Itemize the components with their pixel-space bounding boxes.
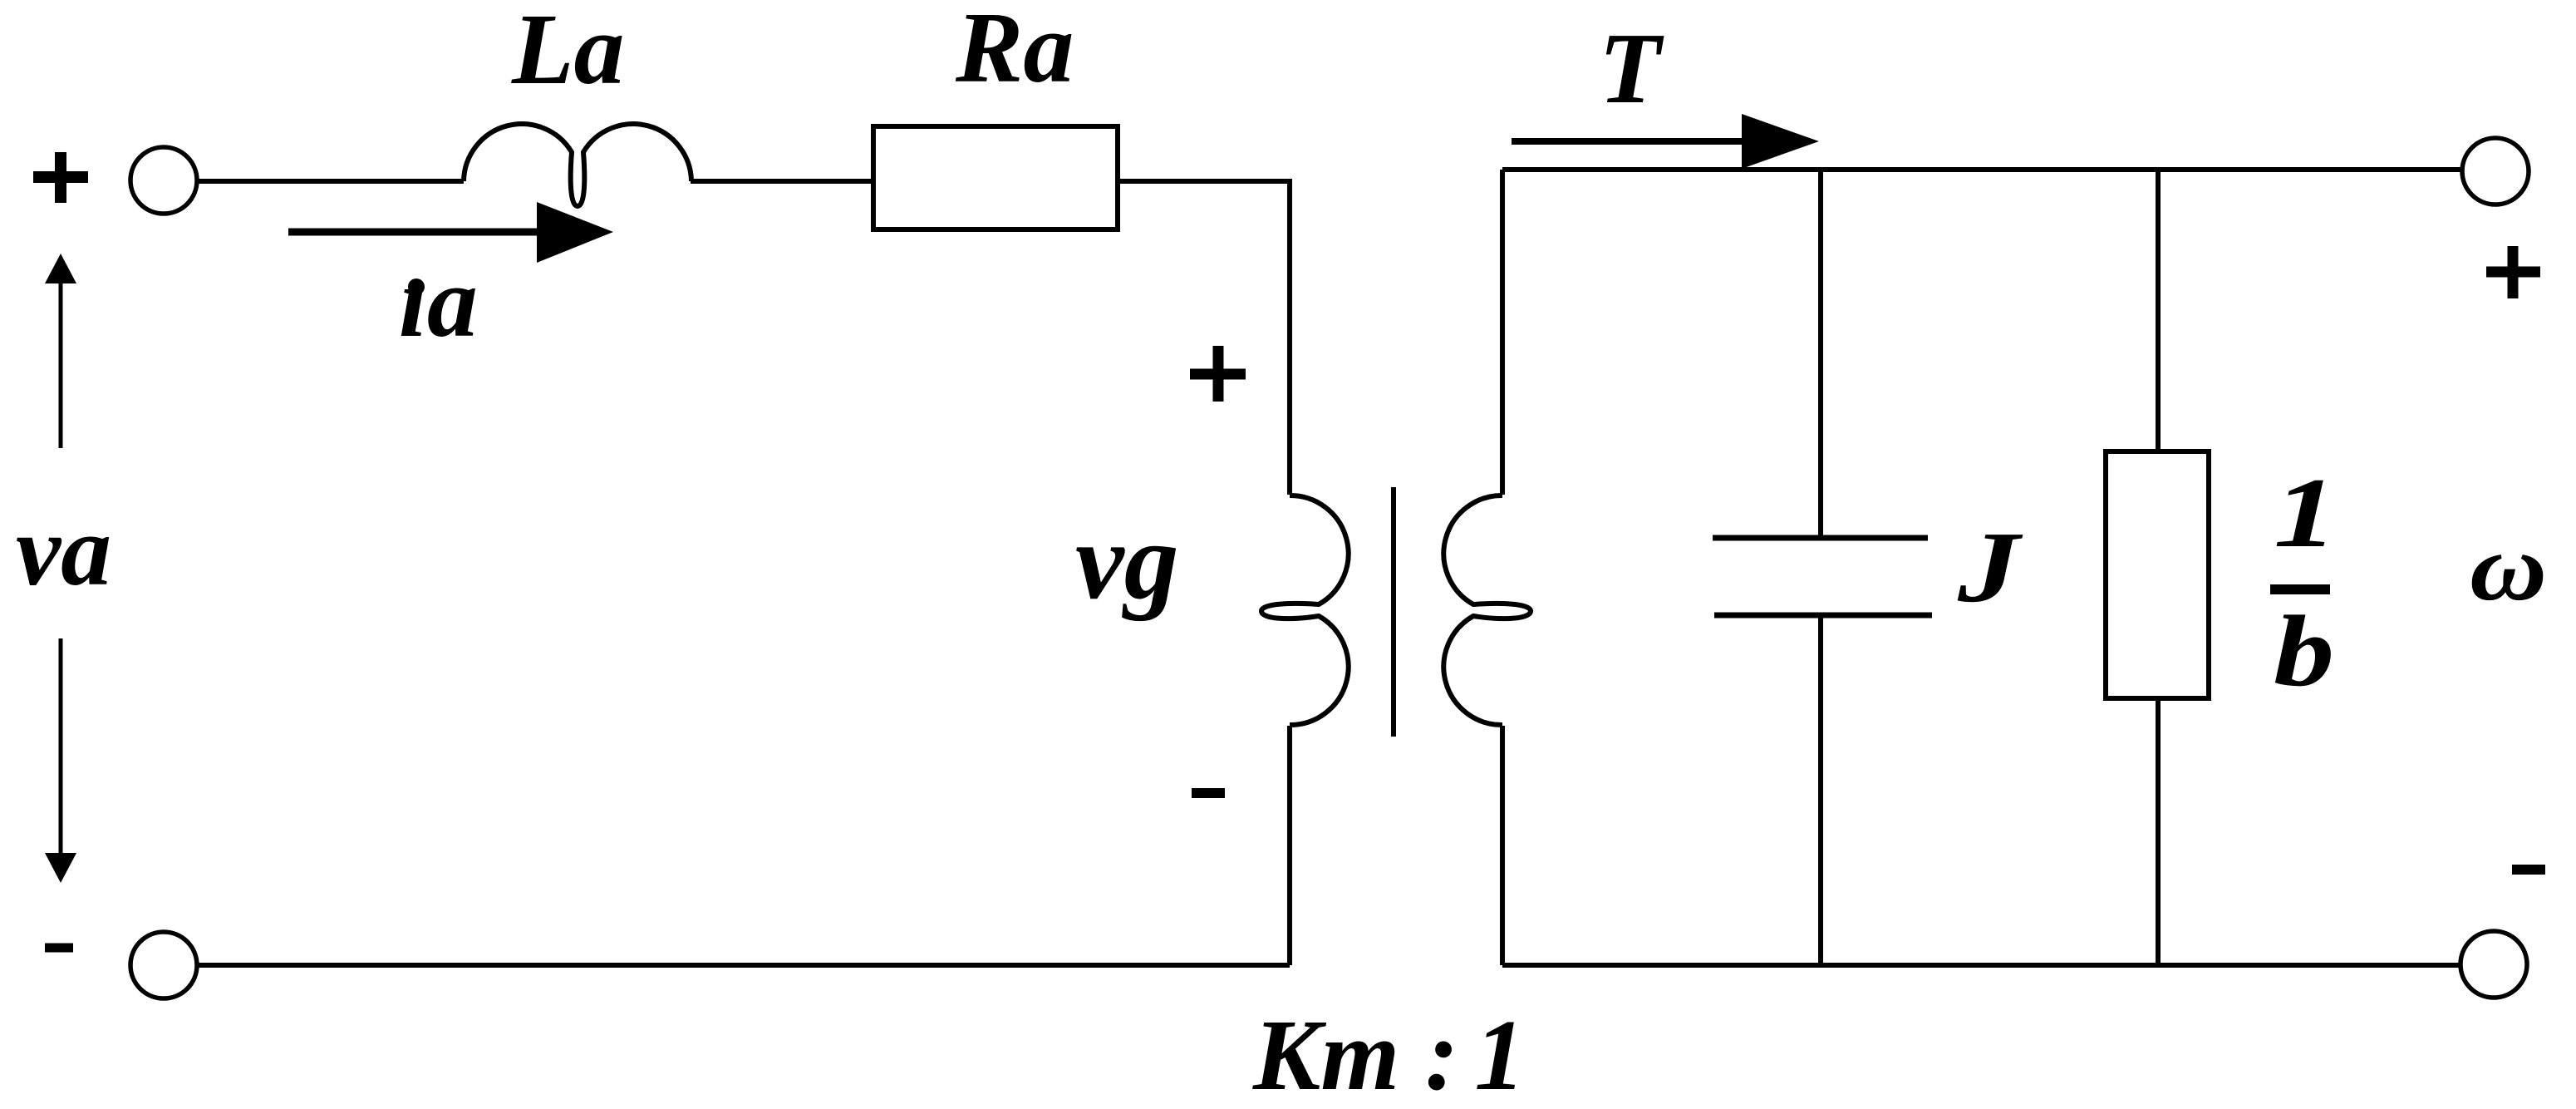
transformer secondary winding bbox=[1443, 495, 1531, 725]
wire resistor to corner bbox=[1118, 179, 1290, 184]
svg-text:ıa: ıa bbox=[399, 246, 478, 358]
wire bottom to transformer primary bbox=[1287, 726, 1292, 965]
wire top-right bbox=[1502, 167, 2462, 172]
terminal bottom-left bbox=[130, 932, 197, 998]
wire inductor to resistor bbox=[691, 179, 873, 184]
transformer primary winding bbox=[1261, 495, 1349, 725]
wire bottom-left bbox=[197, 963, 1290, 968]
voltage arrow va up bbox=[59, 278, 63, 448]
wire secondary down bbox=[1500, 726, 1505, 965]
voltage arrow va down bbox=[59, 638, 63, 855]
svg-text:J: J bbox=[1957, 511, 2023, 623]
minus sign vg bbox=[1192, 788, 1225, 798]
resistor 1/b branch bottom bbox=[2156, 698, 2161, 965]
current arrow ia bbox=[288, 229, 542, 236]
svg-text:La: La bbox=[511, 0, 625, 106]
inductor La bbox=[464, 124, 691, 206]
svg-text:vg: vg bbox=[1075, 500, 1179, 622]
resistor Ra bbox=[873, 126, 1118, 229]
wire top-left bbox=[197, 179, 464, 184]
wire bottom-right bbox=[1502, 963, 2460, 968]
wire secondary up bbox=[1500, 170, 1505, 495]
capacitor J branch bottom bbox=[1818, 615, 1823, 965]
plus sign vg bbox=[1190, 346, 1246, 402]
svg-text:1: 1 bbox=[2274, 457, 2338, 568]
resistor 1/b branch top bbox=[2156, 170, 2161, 451]
svg-text:b: b bbox=[2274, 595, 2334, 707]
svg-text:Km :1: Km :1 bbox=[1252, 999, 1525, 1109]
fraction bar bbox=[2270, 584, 2330, 594]
terminal bottom-right bbox=[2460, 931, 2527, 998]
terminal top-left bbox=[130, 147, 197, 214]
resistor 1/b bbox=[2106, 451, 2209, 698]
plus sign omega bbox=[2486, 246, 2540, 298]
svg-text:va: va bbox=[16, 495, 111, 607]
svg-text:ω: ω bbox=[2470, 515, 2547, 620]
svg-text:Ra: Ra bbox=[955, 0, 1074, 104]
minus sign va bottom bbox=[45, 944, 73, 953]
transformer core bbox=[1391, 487, 1396, 737]
svg-text:T: T bbox=[1599, 12, 1664, 125]
capacitor J branch top bbox=[1818, 170, 1823, 538]
capacitor J plates bbox=[1713, 535, 1928, 541]
torque arrow T bbox=[1512, 138, 1750, 145]
terminal top-right bbox=[2462, 138, 2529, 205]
minus sign omega bbox=[2512, 865, 2545, 875]
plus sign va top bbox=[33, 152, 88, 203]
wire down to transformer primary bbox=[1287, 179, 1292, 495]
